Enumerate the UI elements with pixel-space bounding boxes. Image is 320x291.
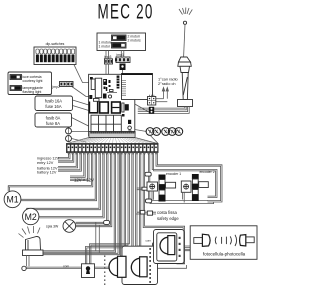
fan-out trapezoid right side xyxy=(135,138,158,144)
relay row 2 grid xyxy=(91,115,121,133)
antenna top ball xyxy=(183,21,186,24)
flasher base xyxy=(23,250,44,256)
motor M1 xyxy=(4,191,21,208)
wire costa b xyxy=(136,213,156,215)
radio connector block xyxy=(148,95,156,105)
fuse symbol F1 xyxy=(66,128,72,134)
jumper JMP1 xyxy=(115,53,130,63)
costa connector lugs xyxy=(140,210,152,215)
wire board corner to cable block xyxy=(135,104,149,112)
wire photocell supply a xyxy=(133,153,190,250)
fuse box F1 16A xyxy=(35,96,73,111)
svg-text:encoder 1: encoder 1 xyxy=(166,172,181,176)
motor selector box xyxy=(97,33,146,51)
junction node xyxy=(153,242,158,247)
svg-text:12V ≈ 12V: 12V ≈ 12V xyxy=(74,178,94,183)
svg-text:jmp2: jmp2 xyxy=(52,85,60,89)
encoder 1 sensor box xyxy=(137,182,158,200)
wire fuse box F2 to fuse circles xyxy=(72,118,89,127)
wire motor M2 a xyxy=(27,153,100,209)
relay K3 xyxy=(112,102,121,113)
svg-text:1 motor: 1 motor xyxy=(99,45,111,49)
transformer box xyxy=(122,74,153,100)
svg-text:MEC 20: MEC 20 xyxy=(98,0,154,23)
wire key switch b xyxy=(90,153,130,264)
svg-text:com: com xyxy=(63,264,69,268)
transformer ribbed edge xyxy=(121,81,126,96)
wires arrows to connector xyxy=(156,99,168,102)
svg-text:spia 3W: spia 3W xyxy=(46,224,59,228)
svg-text:courtesy light: courtesy light xyxy=(23,79,43,83)
wire transformer b xyxy=(70,153,88,180)
vertical label pedonale xyxy=(104,255,105,285)
svg-text:costa fissa: costa fissa xyxy=(157,210,177,215)
pedestrian button xyxy=(109,256,126,277)
wire flasher a xyxy=(44,153,115,251)
antenna body xyxy=(178,57,192,73)
wire costa a xyxy=(137,211,156,213)
svg-text:com: com xyxy=(146,239,152,243)
wire from dip-switch block to board xyxy=(74,65,89,83)
antenna rays xyxy=(179,8,192,15)
frame corner connectors xyxy=(145,172,151,176)
encoder 2 sensor box xyxy=(181,181,191,203)
svg-text:fotocellula-photocella: fotocellula-photocella xyxy=(203,252,246,257)
antenna cable wires xyxy=(138,107,189,114)
selector switch S2 xyxy=(112,43,127,49)
control board PCB outline xyxy=(89,74,135,136)
svg-text:entry 12V: entry 12V xyxy=(37,161,54,165)
wire drop to M2 xyxy=(27,208,28,210)
svg-text:flashing light: flashing light xyxy=(23,90,42,94)
wire from jumper JMP2 to board xyxy=(72,87,89,97)
flasher stand xyxy=(27,256,30,267)
svg-text:dip-switches: dip-switches xyxy=(46,42,65,46)
ground circle node xyxy=(22,266,26,270)
wire motor M1 a xyxy=(8,153,91,186)
flasher rays xyxy=(19,226,41,238)
wire transformer a xyxy=(70,153,84,177)
wire key switch a xyxy=(85,153,125,264)
dip-switch block SW1 xyxy=(34,42,76,65)
wire drop to M1 xyxy=(8,186,9,192)
svg-text:safety edge: safety edge xyxy=(157,216,179,221)
svg-text:jmp1: jmp1 xyxy=(116,53,124,57)
wire stop bottom b xyxy=(151,265,187,268)
wire encoder frame inner xyxy=(152,153,217,198)
svg-text:fuse 16A: fuse 16A xyxy=(45,104,61,109)
svg-text:M1: M1 xyxy=(6,194,18,204)
wire motor M1 b xyxy=(21,153,95,200)
wire fuse circles to board xyxy=(72,131,89,133)
photocell box xyxy=(190,226,257,259)
fuse symbol F2 xyxy=(66,136,72,142)
wire stop button loop xyxy=(145,153,185,264)
buzzer component below JMP1 xyxy=(120,64,126,75)
antenna tube xyxy=(182,73,188,100)
PCB terminal row xyxy=(89,132,135,138)
svg-text:fusib 16A: fusib 16A xyxy=(45,99,62,104)
motor M2 xyxy=(23,208,39,224)
antenna base xyxy=(178,100,193,107)
wire common from flasher foot xyxy=(26,153,122,269)
fan-out hatch wires xyxy=(68,138,154,144)
wire strip corner to buttons xyxy=(150,135,158,143)
IC U1 xyxy=(91,79,95,90)
wire spia branch down a xyxy=(95,222,97,251)
relay K1 (U shape) xyxy=(89,102,97,113)
fan-out trapezoid left side xyxy=(67,138,89,144)
radio channel arrows xyxy=(162,88,168,99)
wire entry 12V b xyxy=(58,153,72,161)
small parts top xyxy=(89,77,117,101)
svg-text:encoder 2: encoder 2 xyxy=(200,170,215,174)
wire battery a xyxy=(58,153,76,167)
wire motor M2 b xyxy=(39,153,103,217)
wire stop bottom a xyxy=(151,262,185,264)
svg-text:fuse 8A: fuse 8A xyxy=(46,121,60,126)
wire selector box to jumper JMP1 xyxy=(121,51,124,58)
crimp marks xyxy=(68,153,157,155)
wire open-close button xyxy=(139,153,140,247)
fuse box F2 8A xyxy=(35,113,72,127)
wire lamp spia a xyxy=(76,153,107,223)
PCB top connector black cells xyxy=(117,76,120,89)
wire fuse box F1 to board xyxy=(73,100,89,105)
svg-text:2°radio ch: 2°radio ch xyxy=(158,81,176,86)
svg-text:2 motors: 2 motors xyxy=(128,39,141,43)
selector switch S1 xyxy=(112,35,127,41)
wire board to button circles xyxy=(135,130,147,132)
key switch box xyxy=(82,264,95,278)
antenna mast xyxy=(184,24,185,57)
IC U2 xyxy=(95,78,101,98)
open-close button box xyxy=(122,246,158,284)
indicator lamp spia xyxy=(63,220,76,233)
jumper JMP2 xyxy=(52,82,74,90)
wire photocell supply b xyxy=(137,153,190,247)
dip-switch levers xyxy=(36,49,75,62)
flasher lamp body xyxy=(26,237,41,251)
button circles group xyxy=(146,128,183,136)
title MEC 20 xyxy=(98,0,154,23)
svg-text:battery 12V: battery 12V xyxy=(37,171,57,175)
courtesy light / flasher switch box xyxy=(8,72,52,95)
wire spia branch down b xyxy=(98,225,100,253)
encoder 1 body xyxy=(159,175,176,202)
wire lamp spia b xyxy=(76,153,111,226)
spia wire connector xyxy=(104,220,110,224)
wire encoder frame outer xyxy=(156,153,221,201)
svg-text:fusib 8A: fusib 8A xyxy=(46,116,61,121)
stop button box xyxy=(154,230,185,264)
wire battery b xyxy=(58,153,80,170)
relay K2 xyxy=(100,102,109,113)
terminal strip xyxy=(67,144,159,153)
right column parts xyxy=(122,103,132,133)
wire entry 12V a xyxy=(58,153,69,158)
wire encoder1 frame left-bottom loop xyxy=(148,153,213,204)
encoder 2 body xyxy=(192,174,208,201)
wire flasher b xyxy=(44,153,119,254)
cable end component xyxy=(149,107,154,114)
jumper JMP3 xyxy=(103,51,113,80)
svg-text:M2: M2 xyxy=(25,211,37,221)
